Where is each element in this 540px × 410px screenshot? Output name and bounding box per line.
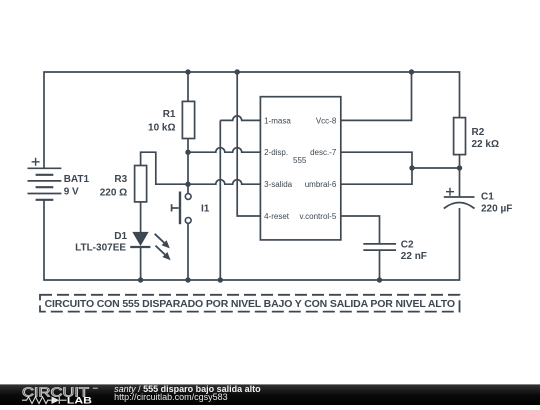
svg-text:desc.-7: desc.-7 bbox=[310, 148, 337, 157]
svg-text:CIRCUITO CON 555 DISPARADO POR: CIRCUITO CON 555 DISPARADO POR NIVEL BAJ… bbox=[45, 298, 455, 310]
svg-text:3-salida: 3-salida bbox=[264, 180, 293, 189]
svg-text:http://circuitlab.com/cgsy583: http://circuitlab.com/cgsy583 bbox=[114, 392, 228, 402]
svg-text:220 Ω: 220 Ω bbox=[100, 188, 127, 199]
svg-text:BAT1: BAT1 bbox=[64, 174, 90, 185]
svg-text:R2: R2 bbox=[472, 127, 485, 138]
svg-text:9 V: 9 V bbox=[64, 187, 79, 198]
svg-text:22 kΩ: 22 kΩ bbox=[472, 139, 499, 150]
svg-text:R3: R3 bbox=[114, 174, 127, 185]
svg-text:LAB: LAB bbox=[67, 395, 92, 405]
svg-text:22 nF: 22 nF bbox=[401, 251, 427, 262]
svg-text:C2: C2 bbox=[401, 240, 414, 251]
svg-text:R1: R1 bbox=[163, 109, 176, 120]
svg-text:C1: C1 bbox=[481, 192, 494, 203]
svg-text:LTL-307EE: LTL-307EE bbox=[75, 243, 126, 254]
svg-text:4-reset: 4-reset bbox=[264, 212, 290, 221]
svg-text:555: 555 bbox=[293, 156, 307, 165]
svg-text:D1: D1 bbox=[114, 231, 127, 242]
svg-text:I1: I1 bbox=[201, 204, 210, 215]
svg-text:220 µF: 220 µF bbox=[481, 204, 512, 215]
svg-text:1-masa: 1-masa bbox=[264, 116, 291, 125]
svg-text:10 kΩ: 10 kΩ bbox=[148, 123, 175, 134]
svg-text:Vcc-8: Vcc-8 bbox=[316, 116, 337, 125]
svg-text:2-disp.: 2-disp. bbox=[264, 148, 288, 157]
svg-text:v.control-5: v.control-5 bbox=[300, 212, 337, 221]
svg-text:umbral-6: umbral-6 bbox=[305, 180, 337, 189]
